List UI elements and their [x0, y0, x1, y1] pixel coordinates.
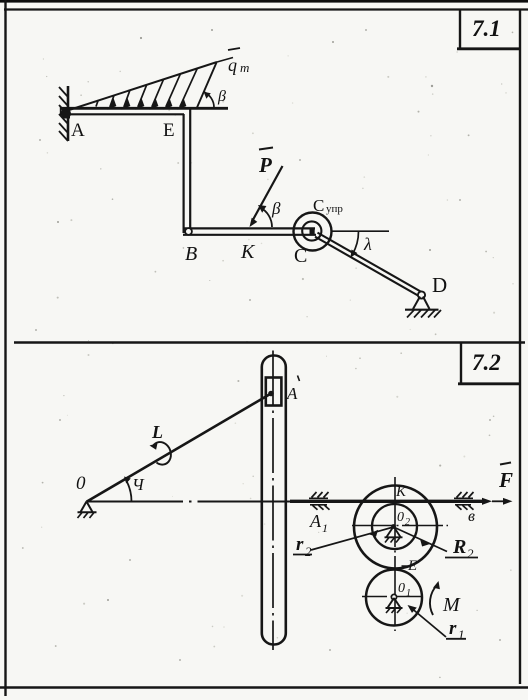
svg-text:2: 2: [305, 544, 312, 559]
svg-text:0: 0: [76, 473, 86, 494]
svg-text:F: F: [498, 468, 513, 492]
crank link O-A: [87, 394, 272, 502]
svg-text:1: 1: [406, 588, 411, 599]
svg-text:B: B: [185, 243, 197, 265]
horizontal bar B-C bottom line: [183, 234, 316, 236]
svg-text:m: m: [240, 60, 249, 75]
svg-text:q: q: [228, 55, 237, 75]
slider block at A: [266, 378, 282, 406]
torque L curved arrow: [150, 442, 171, 465]
svg-text:1: 1: [458, 627, 465, 642]
moment M arc arrow: [430, 581, 440, 615]
node label E (tangent point): [402, 558, 418, 574]
ground hatching at O: [78, 513, 95, 519]
spiral spring inner circle at C: [302, 221, 321, 240]
R2 radius leader line: [394, 527, 448, 552]
r2 label with tail: [293, 534, 312, 559]
rod centerline (dash-dot): [272, 351, 274, 651]
force P line: [250, 166, 283, 227]
svg-text:E: E: [407, 558, 417, 574]
svg-text:E: E: [163, 120, 175, 141]
pin circle at B: [185, 228, 192, 235]
axle hatching at O1: [386, 608, 401, 613]
r1 label with tail: [446, 618, 466, 642]
gear 1 horizontal centerline: [362, 596, 423, 598]
svg-text:L: L: [151, 422, 163, 442]
pivot support at O: [78, 502, 97, 513]
guide support B hatching: [454, 492, 474, 510]
gear 2 outer circle R2: [354, 486, 437, 569]
node label A: [71, 120, 85, 141]
R2 label with tail: [445, 536, 478, 561]
link C-D upper line: [318, 233, 422, 292]
node label E: [163, 120, 175, 141]
beam AE bottom line: [60, 107, 184, 115]
angle psi arc: [124, 477, 132, 502]
torque label L: [151, 422, 163, 442]
load triangle right side: [197, 63, 217, 108]
node label K: [240, 241, 256, 263]
axle pivot at O2: [385, 524, 403, 537]
load label q_m with overbar: [228, 48, 249, 75]
ground hatching at D: [407, 310, 441, 318]
guide label A1: [309, 511, 328, 535]
angle beta arc at K: [258, 205, 272, 227]
svg-text:M: M: [442, 594, 461, 616]
rack end arrowhead: [482, 498, 492, 505]
svg-text:1: 1: [322, 521, 328, 535]
moment label M: [442, 594, 461, 616]
rack bar (thick): [290, 500, 484, 503]
reference line right of C: [331, 230, 389, 232]
svg-text:r: r: [296, 534, 304, 555]
svg-text:A: A: [71, 120, 85, 141]
svg-text:2: 2: [405, 517, 410, 528]
node label C: [294, 245, 307, 267]
force label F with overbar: [498, 463, 513, 493]
top scan edge strip: [0, 0, 528, 3]
pin at A: [268, 391, 274, 397]
slider rod outline: [262, 356, 286, 645]
gear 1 circle r1: [366, 570, 422, 626]
angle beta arc (load): [204, 92, 214, 108]
svg-text:λ: λ: [363, 234, 372, 254]
svg-text:A: A: [309, 511, 322, 531]
svg-text:2: 2: [467, 546, 474, 561]
svg-text:Ч: Ч: [132, 475, 145, 494]
svg-text:C: C: [294, 245, 307, 267]
link C-D lower line: [315, 237, 420, 297]
svg-text:K: K: [240, 241, 256, 263]
vertical bar E-B left line: [183, 114, 185, 233]
node label K (gear contact): [395, 484, 407, 500]
svg-text:A: A: [286, 384, 298, 403]
wall hatching at A: [59, 87, 68, 141]
svg-text:7.1: 7.1: [472, 16, 501, 41]
svg-text:в: в: [468, 508, 475, 525]
angle psi label: [132, 475, 145, 494]
pin circle at D: [418, 291, 425, 298]
spring center block at C: [310, 229, 315, 234]
force label P with overbar: [258, 148, 273, 178]
beam AE top line / load baseline: [60, 107, 228, 110]
angle beta label (load): [217, 88, 226, 105]
label box 7.2: [458, 342, 521, 384]
axle pivot at O1: [386, 594, 403, 608]
angle beta label at K: [271, 199, 281, 218]
axle hatching at O2: [385, 538, 400, 543]
svg-text:K: K: [395, 484, 407, 500]
svg-text:7.2: 7.2: [472, 350, 501, 375]
angle lambda arc: [351, 231, 359, 257]
force F line: [492, 498, 513, 505]
distributed load arrows (hatch): [96, 68, 197, 108]
svg-text:β: β: [271, 199, 281, 218]
vertical bar E-B right line: [189, 109, 191, 229]
r1 radius leader line: [408, 605, 447, 637]
svg-text:R: R: [452, 536, 466, 558]
node label O: [76, 473, 86, 494]
gear 2 inner circle r2: [372, 504, 417, 549]
svg-text:0: 0: [398, 581, 405, 596]
axis label O2: [397, 510, 410, 528]
node label A (7.2): [286, 376, 300, 404]
gear 2 horizontal centerline: [352, 525, 448, 527]
svg-text:C: C: [313, 196, 324, 215]
svg-text:r: r: [449, 618, 457, 639]
svg-text:упр: упр: [326, 203, 343, 215]
guide support A1 hatching: [309, 492, 330, 510]
page border top: [4, 8, 528, 10]
node label D: [432, 273, 447, 297]
spiral spring outer circle at C: [294, 213, 332, 251]
panel divider line: [14, 341, 525, 344]
r2 radius leader line: [311, 527, 394, 550]
svg-text:0: 0: [397, 510, 404, 525]
wall support line at A: [67, 86, 70, 141]
distributed load hypotenuse line: [66, 62, 217, 111]
spring label C_upr: [313, 196, 343, 215]
axis label O1: [398, 581, 411, 599]
svg-text:D: D: [432, 273, 447, 297]
gear 2 vertical centerline: [394, 477, 396, 631]
guide label B: [468, 508, 475, 525]
label box 7.1: [457, 9, 521, 49]
page border left: [4, 0, 6, 696]
svg-text:P: P: [258, 153, 272, 177]
page border right: [519, 9, 521, 684]
horizontal bar B-C top line: [184, 227, 315, 229]
pin blob at A: [61, 108, 71, 119]
horizontal axis dash-dot line: [88, 501, 296, 503]
leader to q_m label: [217, 58, 233, 63]
angle lambda label: [363, 234, 372, 254]
support triangle at D: [405, 297, 439, 310]
svg-text:β: β: [217, 88, 226, 105]
page border bottom: [0, 686, 528, 688]
node label B: [185, 243, 197, 265]
